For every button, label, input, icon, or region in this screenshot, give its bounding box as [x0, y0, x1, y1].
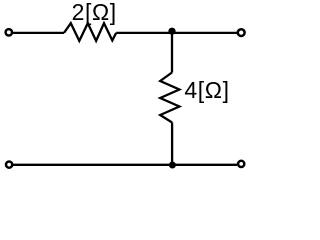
svg-text:2[Ω]: 2[Ω] [72, 0, 117, 25]
svg-text:4[Ω]: 4[Ω] [184, 77, 229, 103]
